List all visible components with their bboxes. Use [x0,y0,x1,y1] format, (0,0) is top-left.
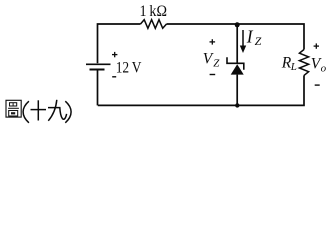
junction node dot top [235,22,240,27]
zener diode D1 triangle [231,64,244,74]
VZ minus sign [210,74,216,76]
svg-text:Z: Z [255,34,262,48]
svg-text:I: I [246,26,254,46]
Vo minus sign [315,84,320,86]
caption glyph TU bottom box [9,111,18,117]
caption close paren [65,101,71,123]
VZ plus sign [210,39,216,44]
wire zener branch top [236,24,238,64]
svg-text:o: o [321,62,327,74]
caption glyph TU middle bar [8,107,19,109]
junction node dot bottom [235,103,239,107]
battery V1 short plate [90,69,105,71]
wire right-bottom segment [98,75,304,105]
caption glyph SHI (ten) [31,100,47,120]
battery plus sign [112,52,117,57]
svg-text:12 V: 12 V [116,58,142,76]
svg-text:V: V [203,51,214,68]
battery V1 gap mask [90,63,105,70]
caption glyph TU inner top box [10,103,17,106]
svg-text:L: L [290,61,297,73]
caption glyph TU (figure) outer box [6,100,21,117]
wire top-right segment [167,24,305,50]
zener diode D1 cathode bar [227,57,244,70]
wire top-left segment [98,24,141,105]
svg-text:Z: Z [213,58,220,70]
battery minus sign [112,76,116,78]
resistor R1 1kOhm zigzag [141,20,167,29]
Vo plus sign [314,43,319,48]
current IZ arrow [242,30,244,47]
resistor RL zigzag [299,50,308,76]
caption open paren [23,101,29,123]
svg-text:1 kΩ: 1 kΩ [140,3,168,20]
caption glyph JIU (nine) [48,100,67,121]
battery V1 long plate [86,63,111,65]
wire zener branch bottom [236,75,238,106]
